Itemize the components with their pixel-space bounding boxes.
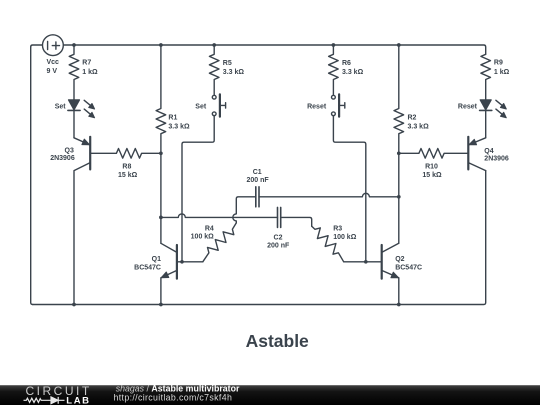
node C2/Q1 collector bbox=[159, 216, 163, 220]
node Vcc/R6 bbox=[332, 43, 336, 47]
svg-text:BC547C: BC547C bbox=[395, 264, 422, 271]
svg-text:9 V: 9 V bbox=[47, 68, 58, 75]
svg-text:Reset: Reset bbox=[307, 103, 327, 110]
node Q1 base bbox=[180, 260, 184, 264]
svg-text:Set: Set bbox=[55, 104, 67, 111]
svg-text:Reset: Reset bbox=[458, 104, 478, 111]
node Vcc/R2 bbox=[397, 43, 401, 47]
wire LED to Q3 emitter bbox=[73, 110, 75, 137]
transistor Q4 (PNP) bbox=[468, 137, 485, 171]
wire top rail bbox=[63, 45, 486, 54]
node Q1 emitter/ground rail bbox=[159, 303, 163, 307]
node Q2 base bbox=[364, 260, 368, 264]
svg-text:Q3: Q3 bbox=[65, 147, 74, 154]
node Q2 emitter/ground rail bbox=[397, 303, 401, 307]
wire Reset button to Q2 base bbox=[333, 116, 365, 262]
resistor R9 bbox=[481, 54, 491, 99]
svg-text:2N3906: 2N3906 bbox=[50, 155, 75, 162]
resistor R10 bbox=[399, 149, 469, 159]
wire Set button to Q1 base bbox=[182, 116, 214, 262]
svg-text:LAB: LAB bbox=[66, 395, 90, 405]
transistor Q1 (NPN) bbox=[161, 243, 203, 304]
wire left edge bbox=[31, 47, 33, 305]
capacitor C1 bbox=[233, 187, 399, 223]
transistor Q2 (NPN) bbox=[344, 243, 399, 304]
svg-text:1 kΩ: 1 kΩ bbox=[494, 69, 510, 76]
pushbutton Reset bbox=[332, 94, 345, 116]
svg-text:200 nF: 200 nF bbox=[267, 243, 290, 250]
node Q3 collector/ground rail bbox=[72, 303, 76, 307]
resistor R5 bbox=[209, 45, 219, 95]
svg-text:R7: R7 bbox=[82, 60, 91, 67]
resistor R7 bbox=[69, 45, 79, 100]
node C1/Q2 collector bbox=[397, 195, 401, 199]
transistor Q3 (PNP) bbox=[74, 137, 90, 305]
voltage source Vcc bbox=[43, 35, 64, 56]
svg-text:3.3 kΩ: 3.3 kΩ bbox=[342, 69, 364, 76]
node Vcc/R5 bbox=[212, 43, 216, 47]
capacitor C2 bbox=[161, 207, 312, 227]
node Vcc/R1 bbox=[159, 43, 163, 47]
wire top rail left of source bbox=[31, 45, 43, 47]
wire bottom rail bbox=[33, 171, 486, 305]
svg-text:R3: R3 bbox=[333, 226, 342, 233]
footer bar bbox=[0, 385, 540, 405]
LED D1 Set bbox=[68, 100, 95, 118]
svg-text:15 kΩ: 15 kΩ bbox=[118, 172, 138, 179]
svg-text:15 kΩ: 15 kΩ bbox=[422, 172, 442, 179]
svg-text:R1: R1 bbox=[168, 115, 177, 122]
svg-text:Q1: Q1 bbox=[152, 256, 161, 263]
node Vcc/R7 bbox=[72, 43, 76, 47]
svg-text:BC547C: BC547C bbox=[134, 264, 161, 271]
svg-text:Q2: Q2 bbox=[395, 256, 404, 263]
LED D2 Reset bbox=[480, 100, 507, 118]
pushbutton Set bbox=[212, 94, 225, 116]
resistor R8 bbox=[90, 149, 161, 159]
svg-text:1 kΩ: 1 kΩ bbox=[82, 69, 98, 76]
svg-text:Astable: Astable bbox=[246, 331, 309, 351]
svg-text:Set: Set bbox=[195, 103, 207, 110]
svg-text:3.3 kΩ: 3.3 kΩ bbox=[168, 124, 190, 131]
svg-text:C2: C2 bbox=[274, 235, 283, 242]
svg-text:R4: R4 bbox=[205, 226, 214, 233]
resistor R3 (diagonal) bbox=[312, 226, 344, 262]
svg-text:Vcc: Vcc bbox=[47, 59, 60, 66]
wire LED to Q4 emitter bbox=[485, 110, 487, 137]
svg-text:R2: R2 bbox=[408, 115, 417, 122]
svg-text:200 nF: 200 nF bbox=[247, 177, 270, 184]
svg-text:http://circuitlab.com/c7skf4h: http://circuitlab.com/c7skf4h bbox=[114, 393, 233, 403]
svg-text:R8: R8 bbox=[122, 163, 131, 170]
svg-text:C1: C1 bbox=[253, 169, 262, 176]
resistor R6 bbox=[329, 45, 339, 95]
resistor R2 bbox=[394, 45, 404, 243]
logo resistor-diode glyph bbox=[24, 397, 65, 404]
resistor R1 bbox=[156, 45, 166, 243]
svg-text:Q4: Q4 bbox=[484, 148, 493, 155]
svg-text:3.3 kΩ: 3.3 kΩ bbox=[223, 69, 245, 76]
svg-text:R9: R9 bbox=[494, 60, 503, 67]
node R8/R1 bbox=[159, 151, 163, 155]
svg-text:100 kΩ: 100 kΩ bbox=[191, 234, 215, 241]
svg-text:R5: R5 bbox=[223, 60, 232, 67]
svg-text:R6: R6 bbox=[342, 60, 351, 67]
resistor R4 (diagonal) bbox=[203, 223, 237, 262]
svg-text:100 kΩ: 100 kΩ bbox=[333, 234, 357, 241]
node R10/R2 bbox=[397, 151, 401, 155]
svg-text:2N3906: 2N3906 bbox=[484, 155, 509, 162]
svg-text:R10: R10 bbox=[425, 163, 438, 170]
svg-text:3.3 kΩ: 3.3 kΩ bbox=[408, 124, 430, 131]
